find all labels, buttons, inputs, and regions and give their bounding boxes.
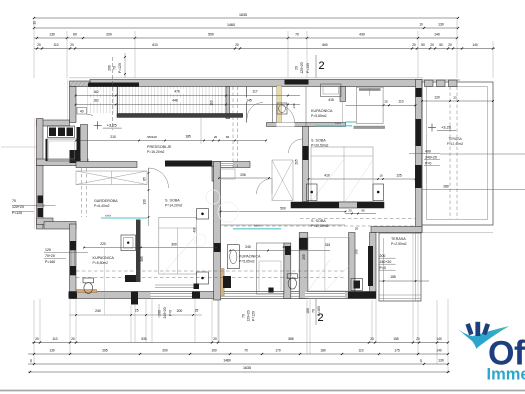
svg-text:415: 415 <box>328 98 334 102</box>
svg-text:KUPAONICA: KUPAONICA <box>93 256 115 260</box>
svg-text:295: 295 <box>295 159 299 165</box>
svg-text:P=2,50m2: P=2,50m2 <box>391 242 407 246</box>
svg-text:140: 140 <box>472 43 478 47</box>
svg-text:KUPAONICA: KUPAONICA <box>239 255 261 259</box>
svg-text:stakla: stakla <box>254 225 261 228</box>
svg-text:25: 25 <box>195 309 199 313</box>
svg-text:PREDSOBLJE: PREDSOBLJE <box>147 145 172 149</box>
svg-text:175: 175 <box>394 349 400 353</box>
svg-text:240: 240 <box>95 309 101 313</box>
svg-text:610: 610 <box>152 43 158 47</box>
svg-text:20: 20 <box>213 337 217 341</box>
svg-text:70: 70 <box>242 314 246 318</box>
svg-text:70+20: 70+20 <box>45 254 55 258</box>
svg-text:20: 20 <box>430 43 434 47</box>
svg-text:65: 65 <box>143 177 147 181</box>
svg-text:190: 190 <box>211 349 217 353</box>
svg-text:140: 140 <box>434 33 440 37</box>
svg-text:240+20: 240+20 <box>380 260 392 264</box>
svg-text:660: 660 <box>322 43 328 47</box>
svg-text:1460: 1460 <box>227 23 235 27</box>
svg-text:240+20: 240+20 <box>425 156 437 160</box>
svg-text:130: 130 <box>49 349 55 353</box>
svg-text:P=160: P=160 <box>45 260 55 264</box>
svg-text:95/210: 95/210 <box>147 135 157 139</box>
svg-text:180: 180 <box>306 308 310 314</box>
svg-text:170: 170 <box>275 349 281 353</box>
svg-text:P=0: P=0 <box>425 162 431 166</box>
svg-text:140: 140 <box>436 337 442 341</box>
svg-text:125: 125 <box>396 174 402 178</box>
svg-text:117: 117 <box>252 90 257 94</box>
svg-text:130: 130 <box>143 199 147 205</box>
svg-text:430: 430 <box>359 33 365 37</box>
svg-text:10: 10 <box>29 359 33 363</box>
svg-text:490: 490 <box>425 150 431 154</box>
svg-text:200: 200 <box>108 65 112 71</box>
svg-text:240+20: 240+20 <box>163 307 167 318</box>
svg-text:P=14,20m2: P=14,20m2 <box>165 204 183 208</box>
svg-text:220: 220 <box>100 242 106 246</box>
svg-text:20: 20 <box>295 66 299 70</box>
svg-text:120: 120 <box>434 96 440 100</box>
svg-text:110: 110 <box>53 43 58 47</box>
svg-text:162: 162 <box>93 90 99 94</box>
svg-text:120+20: 120+20 <box>300 62 304 73</box>
svg-text:1635: 1635 <box>239 13 247 17</box>
svg-text:Imme: Imme <box>487 365 525 383</box>
svg-text:S. SOBA: S. SOBA <box>165 199 180 203</box>
svg-text:P=6,40m2: P=6,40m2 <box>94 204 110 208</box>
svg-text:20: 20 <box>37 43 41 47</box>
svg-text:KUPAONICA: KUPAONICA <box>311 109 333 113</box>
svg-text:155: 155 <box>393 337 399 341</box>
svg-text:60: 60 <box>73 33 77 37</box>
svg-text:P=5,65m2: P=5,65m2 <box>311 114 327 118</box>
svg-text:20: 20 <box>370 337 374 341</box>
svg-text:1635: 1635 <box>243 366 251 370</box>
svg-text:20: 20 <box>355 227 359 231</box>
svg-text:70: 70 <box>12 199 16 203</box>
svg-text:25: 25 <box>135 309 139 313</box>
svg-text:S. SOBA: S. SOBA <box>311 139 326 143</box>
svg-text:50: 50 <box>421 43 425 47</box>
svg-text:10: 10 <box>379 174 383 178</box>
svg-text:240: 240 <box>245 245 251 249</box>
svg-text:20: 20 <box>235 43 239 47</box>
svg-text:P=16,20m2: P=16,20m2 <box>147 150 165 154</box>
svg-text:2: 2 <box>317 312 323 324</box>
svg-text:155: 155 <box>390 275 396 279</box>
svg-text:130: 130 <box>438 359 444 363</box>
svg-text:140: 140 <box>292 103 296 108</box>
svg-text:315: 315 <box>325 243 331 247</box>
svg-text:70: 70 <box>295 33 299 37</box>
svg-text:10: 10 <box>33 21 37 25</box>
svg-text:P=5,65m2: P=5,65m2 <box>239 260 255 264</box>
svg-text:50: 50 <box>439 43 443 47</box>
svg-text:S. SOBA: S. SOBA <box>311 219 326 223</box>
svg-text:206: 206 <box>240 173 246 177</box>
svg-text:448: 448 <box>172 99 178 103</box>
svg-text:20: 20 <box>35 337 39 341</box>
svg-text:20: 20 <box>348 209 352 213</box>
svg-text:185: 185 <box>185 135 191 139</box>
svg-text:265: 265 <box>102 349 108 353</box>
svg-text:180: 180 <box>320 349 326 353</box>
svg-text:TERASA: TERASA <box>391 237 406 241</box>
svg-text:110: 110 <box>52 337 57 341</box>
svg-text:110: 110 <box>398 99 403 103</box>
svg-text:stakla: stakla <box>335 122 342 125</box>
svg-text:162: 162 <box>93 99 99 103</box>
svg-text:20: 20 <box>384 99 388 103</box>
svg-text:20: 20 <box>70 43 74 47</box>
svg-text:410: 410 <box>324 174 330 178</box>
svg-text:130: 130 <box>49 33 55 37</box>
svg-text:295: 295 <box>302 254 306 260</box>
svg-text:530: 530 <box>141 337 147 341</box>
svg-text:120: 120 <box>45 248 51 252</box>
svg-text:200: 200 <box>380 254 386 258</box>
svg-text:P=120: P=120 <box>118 63 122 73</box>
svg-text:590: 590 <box>208 33 214 37</box>
svg-text:500: 500 <box>280 207 286 211</box>
svg-text:10: 10 <box>419 359 423 363</box>
svg-text:110: 110 <box>358 349 363 353</box>
svg-text:P=12,40m2: P=12,40m2 <box>447 142 464 146</box>
svg-text:stakla: stakla <box>105 215 112 218</box>
svg-text:200: 200 <box>162 349 168 353</box>
svg-text:280: 280 <box>443 185 449 189</box>
svg-text:585: 585 <box>288 337 294 341</box>
svg-text:70: 70 <box>244 349 248 353</box>
svg-text:120+20: 120+20 <box>247 310 251 321</box>
svg-text:190: 190 <box>355 249 359 254</box>
svg-text:265: 265 <box>140 256 144 262</box>
svg-text:20: 20 <box>412 43 416 47</box>
svg-text:145: 145 <box>246 99 252 103</box>
svg-text:210: 210 <box>110 135 116 139</box>
svg-text:1480: 1480 <box>223 359 231 363</box>
svg-text:P=5,50m2: P=5,50m2 <box>93 261 109 265</box>
svg-text:P=0: P=0 <box>380 266 386 270</box>
svg-text:130: 130 <box>438 23 444 27</box>
svg-text:20: 20 <box>416 337 420 341</box>
svg-text:+3,26: +3,26 <box>441 125 452 130</box>
svg-text:10: 10 <box>419 23 423 27</box>
svg-text:+3,25: +3,25 <box>107 123 118 128</box>
svg-text:P=10,10m2: P=10,10m2 <box>311 224 329 228</box>
svg-text:20: 20 <box>71 337 75 341</box>
svg-text:476: 476 <box>174 90 180 94</box>
svg-text:140: 140 <box>436 349 442 353</box>
svg-text:20: 20 <box>453 96 457 100</box>
svg-text:2: 2 <box>318 60 324 72</box>
svg-text:300: 300 <box>171 243 177 247</box>
svg-text:P=100: P=100 <box>306 63 310 73</box>
svg-text:65: 65 <box>361 209 365 213</box>
svg-text:TERASA: TERASA <box>448 137 462 141</box>
svg-text:P=120: P=120 <box>252 311 256 321</box>
svg-text:20: 20 <box>448 43 452 47</box>
svg-text:60: 60 <box>226 135 230 139</box>
svg-text:GARDEROBA: GARDEROBA <box>94 199 118 203</box>
svg-text:200: 200 <box>106 33 112 37</box>
svg-text:70: 70 <box>113 66 117 70</box>
svg-text:40: 40 <box>80 110 84 114</box>
svg-text:110: 110 <box>210 100 214 105</box>
svg-text:200: 200 <box>177 309 183 313</box>
svg-text:70: 70 <box>312 309 316 313</box>
svg-text:20: 20 <box>214 135 218 139</box>
